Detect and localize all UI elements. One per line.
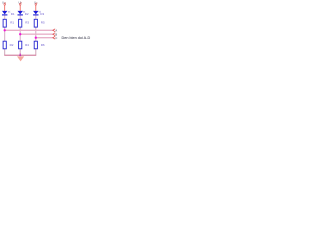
resistor R4 bbox=[19, 41, 22, 49]
wire D1 to R1 bbox=[4, 15, 6, 20]
LED D3 bbox=[33, 11, 38, 15]
svg-text:Den bien doi A-D: Den bien doi A-D bbox=[62, 36, 91, 40]
wire row C bbox=[36, 37, 54, 39]
wire D3 to R5 bbox=[35, 15, 37, 20]
svg-text:R6: R6 bbox=[41, 43, 45, 47]
junction column2 ground rail bbox=[19, 54, 21, 56]
wire R2 to ground rail bbox=[4, 49, 6, 56]
resistor R6 label bbox=[41, 43, 45, 47]
LED D1 label bbox=[8, 11, 15, 16]
wire row A bbox=[5, 29, 54, 31]
port arrow A bbox=[53, 29, 58, 33]
wire row B bbox=[20, 33, 53, 35]
ground bbox=[17, 56, 24, 61]
resistor R5 label bbox=[41, 21, 45, 25]
junction column2 row B bbox=[19, 33, 21, 35]
resistor R1 bbox=[3, 19, 6, 27]
resistor R2 bbox=[3, 41, 6, 49]
wire D2 to R3 bbox=[19, 15, 21, 20]
wire terminal Ub to D2 bbox=[19, 6, 21, 12]
LED D1 bbox=[2, 11, 7, 15]
wire R4 to ground rail bbox=[19, 49, 21, 56]
wire terminal Ua to D1 bbox=[4, 6, 6, 12]
resistor R1 label bbox=[10, 21, 14, 25]
LED D3 label bbox=[39, 11, 45, 16]
resistor R2 label bbox=[10, 43, 14, 47]
resistor R3 bbox=[19, 19, 22, 27]
resistor R3 label bbox=[25, 21, 29, 25]
svg-text:D2: D2 bbox=[25, 12, 29, 16]
port arrow B bbox=[53, 32, 58, 36]
svg-text:D3: D3 bbox=[40, 12, 44, 16]
wire terminal Uc to D3 bbox=[35, 6, 37, 12]
wire R3 to node row B bbox=[19, 27, 21, 42]
svg-text:R5: R5 bbox=[41, 21, 45, 25]
svg-text:C: C bbox=[55, 36, 57, 40]
resistor R6 bbox=[34, 41, 37, 49]
svg-text:R2: R2 bbox=[10, 43, 14, 47]
svg-text:R3: R3 bbox=[25, 21, 29, 25]
annotation title bbox=[62, 36, 91, 40]
svg-text:R4: R4 bbox=[25, 43, 29, 47]
node Ua label bbox=[2, 0, 6, 4]
terminal Uc bbox=[35, 4, 37, 6]
svg-text:A: A bbox=[55, 29, 57, 33]
wire ground rail bbox=[4, 54, 36, 56]
terminal Ua bbox=[4, 4, 6, 6]
wire R1 to node row A bbox=[4, 27, 6, 42]
node Uc label bbox=[34, 0, 38, 4]
wire R6 to ground rail bbox=[35, 49, 37, 56]
junction column1 row A bbox=[4, 29, 6, 31]
LED D2 label bbox=[23, 11, 29, 16]
svg-text:R1: R1 bbox=[10, 21, 14, 25]
wire R5 to node row C bbox=[35, 27, 37, 42]
svg-text:B: B bbox=[55, 32, 57, 36]
resistor R5 bbox=[34, 19, 37, 27]
node Ub label bbox=[18, 0, 22, 4]
svg-text:D1: D1 bbox=[11, 12, 15, 16]
LED D2 bbox=[18, 11, 23, 15]
resistor R4 label bbox=[25, 43, 29, 47]
junction column3 row C bbox=[35, 37, 37, 39]
terminal Ub bbox=[19, 4, 21, 6]
port arrow C bbox=[53, 36, 58, 40]
